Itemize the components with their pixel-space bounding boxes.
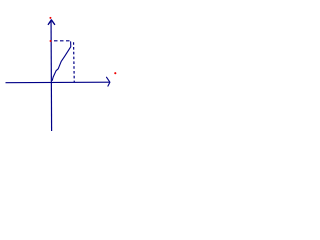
y-axis arrowhead: [48, 20, 54, 25]
dashed horizontal line from y-axis to corner: [54, 40, 72, 42]
red dot above y-axis arrow: [49, 17, 51, 19]
red dot near x-axis arrow: [114, 72, 116, 74]
x-axis arrowhead: [107, 77, 110, 86]
freehand slanted line from origin to upper right: [52, 41, 71, 81]
dashed vertical line from corner down to x-axis: [73, 42, 76, 82]
red dot on y-axis at dashed line: [50, 40, 52, 42]
x-axis: [6, 81, 110, 84]
y-axis: [50, 20, 53, 131]
